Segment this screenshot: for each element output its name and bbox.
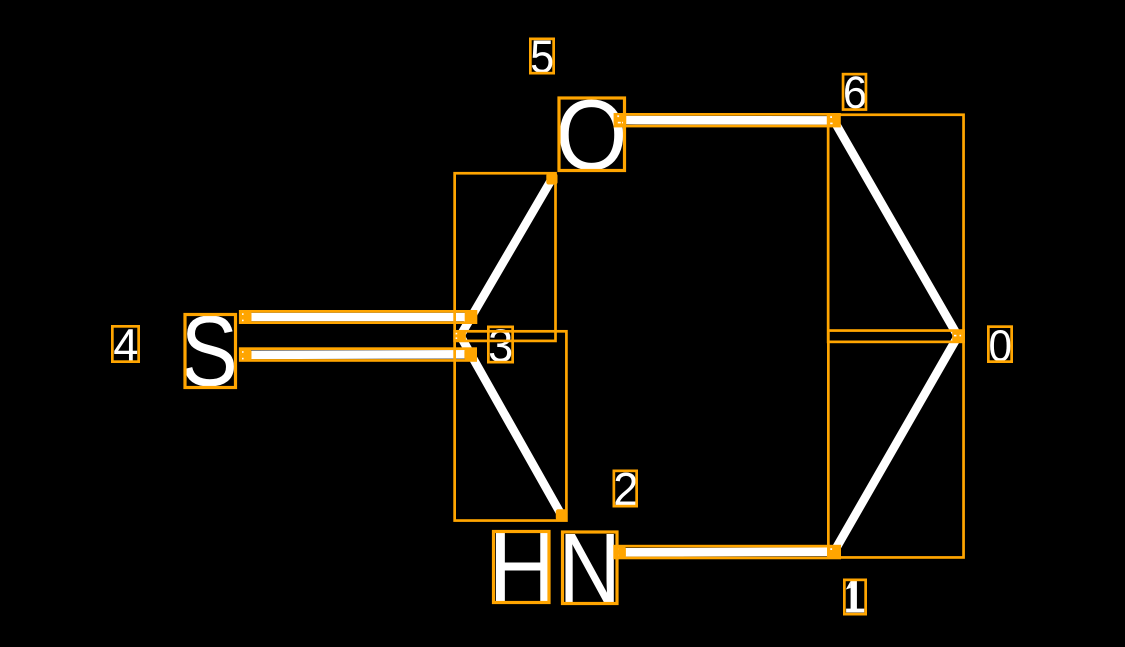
bond C1-N bbox=[620, 547, 834, 556]
label box 1 bbox=[844, 580, 865, 614]
bbox bond C1-N bbox=[615, 546, 840, 558]
bond S=C3 lower line bbox=[246, 350, 470, 359]
bbox S=C3 upper line bbox=[240, 311, 476, 322]
marker S=C3 upper end C3 bbox=[465, 311, 476, 322]
marker S=C3 upper end S bbox=[240, 311, 251, 322]
bbox bond C0-C1 bbox=[828, 331, 963, 558]
bond C0-C1 bbox=[834, 336, 958, 552]
marker white specks bbox=[242, 115, 961, 556]
label box 0 bbox=[988, 327, 1011, 362]
marker S=C3 lower end C3 bbox=[464, 349, 475, 360]
label box 6 bbox=[843, 74, 866, 109]
bbox bond O-C6 bbox=[615, 114, 840, 126]
svg-text:N: N bbox=[558, 513, 620, 624]
bbox bond C3-N bbox=[455, 331, 567, 520]
marker bond C3-O end C3 bbox=[455, 330, 466, 341]
svg-text:H: H bbox=[488, 511, 557, 625]
marker bond O-C6 end O bbox=[615, 114, 626, 125]
atom box S bbox=[185, 315, 236, 388]
bbox bond C3-O bbox=[455, 173, 556, 341]
marker bond O-C6 end C6 bbox=[828, 115, 839, 126]
bond C3-N bbox=[460, 336, 561, 515]
atom box O bbox=[559, 98, 625, 171]
label box 4 bbox=[112, 326, 138, 361]
label box 3 bbox=[488, 327, 512, 362]
marker S=C3 lower end S bbox=[240, 349, 251, 360]
bond S=C3 upper line bbox=[246, 313, 470, 322]
marker bond C3-N end N bbox=[556, 509, 567, 520]
bond C3-O bbox=[460, 179, 552, 336]
marker bond C6-C0 end C6 bbox=[828, 115, 839, 126]
svg-text:6: 6 bbox=[843, 68, 867, 118]
index label 1 digit glyph bbox=[846, 581, 865, 613]
atom box N bbox=[563, 532, 618, 604]
marker bond C0-C1 end C0 bbox=[952, 331, 963, 342]
bbox S=C3 lower line bbox=[240, 349, 475, 361]
marker bond C6-C0 end C0 bbox=[952, 331, 963, 342]
marker bond C1-N end N bbox=[615, 547, 626, 558]
bond C6-C0 bbox=[834, 120, 958, 336]
svg-text:0: 0 bbox=[989, 321, 1013, 371]
marker bond C0-C1 end C1 bbox=[828, 546, 839, 557]
label box 2 bbox=[614, 471, 637, 506]
atom box H bbox=[494, 532, 550, 603]
marker bond C3-O end O bbox=[546, 173, 557, 184]
marker bond C1-N end C1 bbox=[828, 546, 839, 557]
label box 5 bbox=[530, 39, 553, 73]
svg-text:S: S bbox=[181, 296, 238, 407]
bbox bond C6-C0 bbox=[828, 115, 963, 342]
bond O-C6 bbox=[621, 116, 834, 125]
